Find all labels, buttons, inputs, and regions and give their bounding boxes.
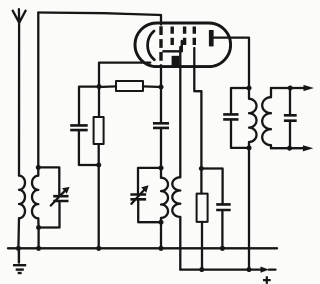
wire bias net to rail [98, 165, 100, 248]
junction B+ R3 [199, 267, 204, 272]
resistor R1 (vertical) [94, 117, 104, 144]
resistor R3 leads [200, 169, 203, 270]
ground [13, 248, 26, 273]
wire grid1 line down [160, 65, 162, 123]
B+ line [180, 268, 262, 270]
tube oscillator anode blob [172, 56, 180, 67]
node osc tank top [158, 165, 163, 170]
wire IF primary bottom to B+ [248, 148, 250, 270]
capacitor C2 bottom lead [79, 130, 99, 165]
resistor R2 (horizontal grid leak) [116, 81, 143, 91]
transformer L2 grid winding [161, 168, 168, 248]
wire tank top to variable capacitor C4v [138, 168, 161, 194]
node osc tank bottom [158, 220, 163, 225]
wire C3 bottom to osc tank [160, 128, 162, 168]
tube grid 2 (dashed) [170, 27, 173, 49]
junction secondary bottom [36, 225, 41, 230]
antenna [13, 9, 26, 175]
wire left drop from rail to tank node [37, 13, 39, 168]
capacitor C2 plates [70, 125, 88, 130]
tube grid tie wire (step) [163, 41, 182, 51]
wire cathode lead to bias node [99, 63, 150, 87]
tube V1 envelope [135, 23, 231, 67]
resistor R2 leads [99, 85, 161, 88]
junction rail bias [96, 246, 101, 251]
node IF primary top [246, 85, 251, 90]
capacitor C7 (IF secondary tuning) top lead [289, 88, 291, 115]
capacitor C6 bottom lead [231, 119, 249, 147]
resistor R1 leads [98, 87, 101, 165]
ground rail [8, 247, 277, 249]
tube cathode arc [148, 31, 155, 60]
transformer L1 secondary winding [32, 167, 39, 248]
wire anode to IF transformer [214, 38, 249, 88]
wire screen lead from tube [194, 48, 201, 169]
junction rail osc [158, 246, 163, 251]
transformer L2 anode winding [172, 176, 180, 269]
tube grid 4 (dashed) [193, 27, 196, 49]
node secondary bottom [287, 146, 292, 151]
B+ arrow [261, 267, 269, 273]
wire screen node to bypass cap [201, 169, 222, 205]
wire top rail from antenna node to tube top [38, 13, 161, 25]
node IF primary bottom [246, 145, 251, 150]
variable capacitor C1v arrow [51, 187, 70, 206]
capacitor C2 top lead [79, 87, 99, 126]
tube anode bar [209, 30, 214, 46]
wire C4v bottom to tank bottom [138, 199, 161, 222]
variable capacitor C4v plates [130, 195, 146, 200]
resistor R3 (screen dropper) [197, 194, 208, 222]
capacitor C7 plates [284, 115, 297, 120]
capacitor C6 plates [223, 114, 238, 119]
wire IF secondary top with output arrow [271, 87, 305, 89]
wire C1v bottom to secondary bottom [39, 201, 60, 228]
transformer L1 primary winding [18, 176, 25, 249]
junction rail C5 [220, 246, 225, 251]
transformer L3 primary winding [249, 88, 256, 148]
variable capacitor C4v arrow [131, 185, 148, 204]
wire osc anode lead [179, 47, 181, 176]
tube grid 3 (dashed) [183, 27, 186, 49]
wire IF secondary bottom with output arrow [271, 147, 304, 149]
capacitor C3 (series grid cap) plates [153, 123, 169, 128]
node A (grid tank top) [36, 165, 41, 170]
junction R1/C2 bottom [96, 162, 101, 167]
junction R2 right on grid line [158, 84, 163, 89]
junction rail secondary [36, 246, 41, 251]
transformer L3 secondary winding [262, 88, 271, 148]
capacitor C7 bottom lead [289, 121, 291, 149]
wire tank top to variable capacitor C1v [38, 167, 59, 196]
capacitor C6 (IF primary tuning) leads top [231, 88, 249, 114]
wire C5 bottom to rail [221, 210, 223, 248]
plus label [263, 276, 271, 284]
variable capacitor C1v plates [53, 196, 68, 201]
B+ stub after arrow [269, 268, 276, 270]
capacitor C5 (screen bypass) plates [216, 204, 231, 210]
node screen [199, 166, 204, 171]
node secondary top [288, 85, 293, 90]
node bias [96, 84, 101, 89]
tube grid 1 (dashed, signal grid) [159, 26, 162, 65]
junction rail antenna coil [16, 246, 21, 251]
junction B+ IF [246, 267, 251, 272]
